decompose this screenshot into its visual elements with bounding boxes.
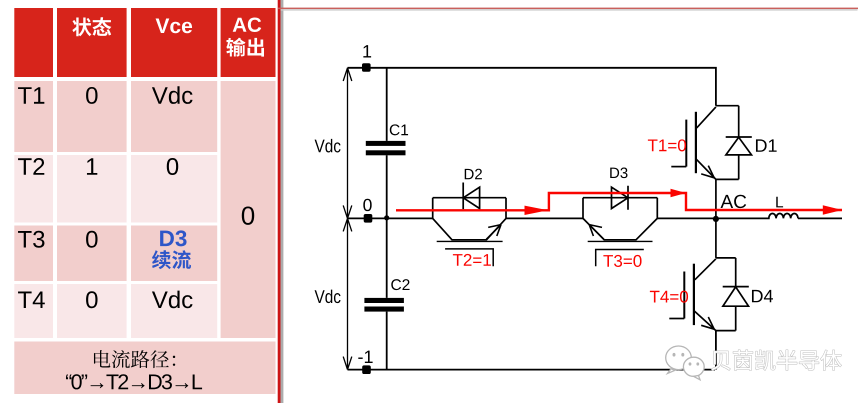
label box for T3=0 — [596, 250, 644, 267]
wire DC bus lower — [386, 312, 388, 370]
node 1 dot — [362, 63, 371, 72]
capacitor C2 — [364, 298, 404, 312]
T2 emitter arrow — [486, 225, 501, 240]
table body rows — [14, 81, 53, 152]
row T1 labels — [18, 87, 44, 104]
wire top rail node1 to T1 collector — [348, 67, 716, 106]
label C2 — [391, 279, 409, 290]
T1 emitter arrow — [701, 166, 714, 178]
label box for T2=1 — [445, 249, 493, 266]
wire AC to T4 collector — [715, 218, 717, 258]
watermark text — [711, 350, 841, 370]
T4 emitter arrow — [701, 317, 714, 329]
label D1 — [756, 139, 777, 151]
header label Vce — [156, 19, 193, 34]
cell D3 freewheeling (blue) — [160, 230, 186, 246]
label C1 — [390, 124, 408, 135]
label T4=0 — [650, 291, 688, 303]
header label AC 输出 — [233, 17, 262, 32]
label D3 — [610, 168, 627, 179]
diode D1 — [716, 106, 752, 180]
label Vdc lower — [315, 290, 341, 304]
header label 状态 — [72, 17, 111, 36]
slide border top line — [278, 8, 858, 10]
red arrowhead 1 — [525, 206, 549, 215]
row T2 labels — [18, 158, 44, 175]
row T4 labels — [18, 291, 45, 308]
label AC — [721, 195, 747, 208]
merged AC-output cell — [221, 81, 276, 338]
capacitor C1 — [366, 141, 406, 155]
wire DC bus upper — [386, 68, 388, 141]
wire T1 emitter to AC — [715, 179, 717, 218]
footer row — [14, 342, 275, 395]
red arrowhead 2 — [671, 189, 687, 198]
slide border vertical line — [278, 0, 281, 403]
wire T3 to AC node — [657, 217, 716, 219]
diode D3 — [612, 186, 629, 210]
label Vdc upper — [315, 139, 341, 153]
label D2 — [465, 169, 482, 179]
transistor T2 (lateral IGBT body) — [433, 183, 506, 242]
Vdc dimension arrow upper — [343, 68, 352, 370]
Vdc dimension arrow lower — [343, 218, 352, 369]
diode D4 — [716, 258, 749, 331]
node 0 dot — [364, 214, 373, 223]
transistor T4 (IGBT) — [669, 218, 749, 330]
node -1 dot — [362, 365, 371, 374]
transistor T3 (lateral IGBT body) — [583, 186, 657, 242]
diode D2 — [463, 183, 479, 210]
red current path wire 0 - T2 - D3 - L — [396, 193, 842, 210]
junction dot AC node — [713, 216, 719, 222]
red arrowhead 3 — [823, 205, 842, 215]
label T3=0 — [603, 255, 641, 267]
wire DC bus middle — [386, 155, 388, 298]
footer current path text — [94, 350, 175, 368]
T3 emitter arrow — [589, 225, 604, 240]
junction dot DC bus / node 0 — [384, 215, 389, 220]
wire bottom rail node-1 to T4 emitter — [348, 331, 716, 370]
label L — [776, 197, 783, 208]
table header row — [14, 8, 275, 77]
merged cell 0 — [242, 206, 254, 224]
node 0 label — [363, 199, 371, 211]
node 1 label — [363, 45, 371, 57]
watermark logo bubbles — [666, 346, 704, 380]
wire mid rail node0 to T2 — [348, 217, 433, 219]
label D4 — [752, 290, 773, 302]
inductor L — [716, 214, 842, 219]
label T2=1 — [453, 254, 491, 266]
label T1=0 — [648, 139, 686, 151]
wire T2 to T3 — [506, 217, 583, 219]
node -1 label — [358, 351, 372, 363]
row T3 labels — [18, 231, 44, 248]
transistor T1 (IGBT) — [671, 106, 752, 219]
